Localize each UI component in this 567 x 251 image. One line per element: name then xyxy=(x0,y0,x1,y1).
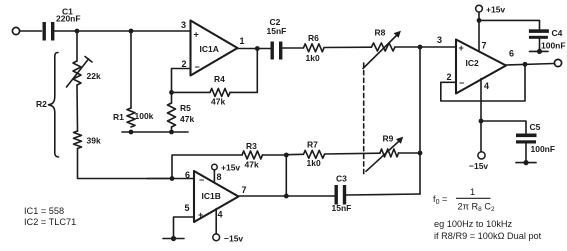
svg-text:4: 4 xyxy=(484,81,489,91)
svg-text:15nF: 15nF xyxy=(267,26,287,36)
-15v supply (pin 4) and C5 xyxy=(480,79,482,152)
wire: IC2 feedback xyxy=(441,65,525,102)
node xyxy=(129,130,134,135)
node xyxy=(418,45,423,50)
svg-text:R2: R2 xyxy=(36,99,47,109)
svg-text:if R8/R9 = 100kΩ Dual pot: if R8/R9 = 100kΩ Dual pot xyxy=(434,231,542,241)
svg-text:+: + xyxy=(198,210,203,220)
svg-text:IC1 = 558: IC1 = 558 xyxy=(24,206,64,216)
resistor R1 100k xyxy=(127,108,135,127)
resistor R3 47k xyxy=(242,151,263,159)
svg-text:+: + xyxy=(194,30,199,40)
wire: IC2 output xyxy=(506,64,554,66)
svg-text:1k0: 1k0 xyxy=(306,53,320,63)
svg-text:3: 3 xyxy=(181,20,186,30)
op-amp IC1B xyxy=(194,171,239,222)
svg-text:+: + xyxy=(459,43,464,53)
svg-text:R8: R8 xyxy=(375,28,386,38)
op-amp IC2 xyxy=(456,40,506,94)
svg-text:7: 7 xyxy=(482,41,487,51)
output terminal xyxy=(554,59,561,66)
svg-text:47k: 47k xyxy=(245,160,259,170)
wire xyxy=(285,155,287,196)
wire: node column xyxy=(419,47,421,194)
node xyxy=(255,46,260,51)
svg-text:2π R8 C2: 2π R8 C2 xyxy=(458,202,495,214)
resistor R6 1k0 xyxy=(304,44,325,52)
resistor R5 47k xyxy=(168,103,176,127)
svg-text:8: 8 xyxy=(217,172,222,182)
svg-text:4: 4 xyxy=(218,210,223,220)
node xyxy=(477,18,482,23)
resistor R7 1k0 xyxy=(286,153,303,155)
svg-text:C4: C4 xyxy=(552,28,563,38)
svg-text:6: 6 xyxy=(185,170,190,180)
+15v supply (pin 7) xyxy=(478,12,480,52)
svg-text:IC2: IC2 xyxy=(466,58,480,68)
capacitor C4 100nF xyxy=(479,20,540,29)
wire xyxy=(324,46,372,48)
resistor R4 47k xyxy=(172,91,211,93)
svg-text:C3: C3 xyxy=(336,174,347,184)
svg-text:47k: 47k xyxy=(180,114,194,124)
svg-text:IC2 = TLC71: IC2 = TLC71 xyxy=(24,217,76,227)
svg-text:47k: 47k xyxy=(211,97,225,107)
-15v supply (pin 4) xyxy=(215,209,217,234)
svg-text:f0 =: f0 = xyxy=(433,194,447,206)
wire: rail under R1/R5 xyxy=(122,131,188,133)
node: inverting input node of IC1A xyxy=(169,90,174,95)
svg-text:−15v: −15v xyxy=(224,234,243,244)
wire xyxy=(346,194,420,195)
capacitor C1 220nF xyxy=(43,22,55,41)
wire xyxy=(20,30,42,32)
svg-text:R9: R9 xyxy=(383,134,394,144)
wire: stub xyxy=(163,238,184,240)
node xyxy=(523,62,528,67)
svg-text:C5: C5 xyxy=(530,122,541,132)
capacitor C2 15nF xyxy=(271,42,283,60)
svg-text:R1: R1 xyxy=(113,112,124,122)
brace R2 xyxy=(49,53,59,158)
wire xyxy=(283,47,304,49)
capacitor C5 100nF xyxy=(481,121,526,133)
wire xyxy=(395,46,456,48)
svg-text:2: 2 xyxy=(182,59,187,69)
gang (dashed) xyxy=(363,63,365,176)
trimmer 22k (part of R2) xyxy=(73,61,81,85)
svg-text:100k: 100k xyxy=(135,111,154,121)
node: junction at R1 top xyxy=(129,29,134,34)
node xyxy=(169,130,174,135)
potentiometer R8 xyxy=(372,43,396,51)
svg-text:+15v: +15v xyxy=(221,163,240,173)
wire xyxy=(55,30,191,32)
wire: pin6 node up xyxy=(172,155,242,179)
svg-text:15nF: 15nF xyxy=(332,203,352,213)
wire xyxy=(171,92,173,103)
svg-text:−: − xyxy=(199,175,204,185)
svg-text:2: 2 xyxy=(447,72,452,82)
node: junction at C1/R2 xyxy=(75,29,80,34)
svg-text:3: 3 xyxy=(437,35,442,45)
wire pin 6 xyxy=(147,178,194,180)
wire xyxy=(399,152,421,154)
svg-text:100nF: 100nF xyxy=(541,41,566,51)
wire xyxy=(78,149,173,179)
wire xyxy=(76,31,78,61)
svg-text:22k: 22k xyxy=(87,71,101,81)
svg-text:IC1B: IC1B xyxy=(202,191,221,201)
note IC types xyxy=(24,187,475,227)
op-amp IC1A xyxy=(191,21,238,76)
node xyxy=(418,151,423,156)
svg-text:100nF: 100nF xyxy=(531,144,556,154)
capacitor C3 15nF xyxy=(335,185,347,205)
svg-text:IC1A: IC1A xyxy=(200,44,219,54)
svg-text:39k: 39k xyxy=(87,136,101,146)
svg-text:−15v: −15v xyxy=(469,161,488,171)
svg-text:220nF: 220nF xyxy=(56,14,81,24)
svg-text:5: 5 xyxy=(185,203,190,213)
svg-text:1k0: 1k0 xyxy=(307,158,321,168)
input terminal xyxy=(12,27,19,34)
svg-text:R3: R3 xyxy=(246,141,257,151)
wire xyxy=(130,31,132,108)
svg-text:eg 100Hz to 10kHz: eg 100Hz to 10kHz xyxy=(434,219,513,229)
wire xyxy=(76,85,79,131)
node xyxy=(170,176,175,181)
svg-text:−: − xyxy=(195,62,200,72)
svg-text:+15v: +15v xyxy=(486,5,505,15)
resistor 39k (part of R2) xyxy=(74,131,82,149)
node xyxy=(284,153,289,158)
node xyxy=(284,194,289,199)
svg-text:−: − xyxy=(459,78,464,88)
svg-text:1: 1 xyxy=(470,187,475,197)
svg-text:7: 7 xyxy=(242,185,247,195)
+15v supply (pin 8) xyxy=(213,170,215,182)
potentiometer R9 xyxy=(380,149,399,157)
svg-text:6: 6 xyxy=(509,49,514,59)
wire pin 5 xyxy=(174,217,195,239)
svg-text:R5: R5 xyxy=(180,103,191,113)
node xyxy=(171,236,176,241)
svg-text:R4: R4 xyxy=(214,74,225,84)
wire to pin 2 xyxy=(172,69,191,93)
wire: IC1A output xyxy=(238,48,271,50)
wire: IC1B output xyxy=(239,195,336,197)
svg-text:R6: R6 xyxy=(308,33,319,43)
svg-text:1: 1 xyxy=(240,36,245,46)
svg-text:R7: R7 xyxy=(307,140,318,150)
